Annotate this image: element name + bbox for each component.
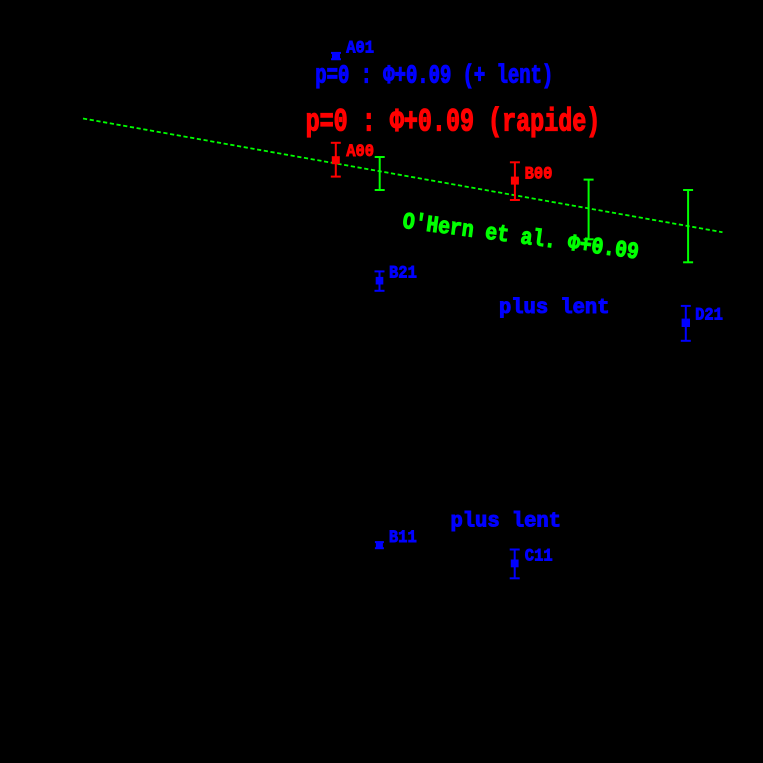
- svg-text:p=0 : Φ+0.09 (+ lent): p=0 : Φ+0.09 (+ lent): [315, 61, 553, 91]
- green error bar 3: [683, 190, 693, 262]
- error bar A01 (blue, tiny): [331, 52, 341, 60]
- svg-text:A00: A00: [346, 141, 374, 161]
- svg-text:p=0 : Φ+0.09 (rapide): p=0 : Φ+0.09 (rapide): [306, 105, 601, 140]
- svg-text:B21: B21: [389, 263, 417, 283]
- error bar A00 (red) with square marker: [331, 143, 341, 177]
- error bar B21 (blue) with square marker: [375, 271, 385, 290]
- error bar D21 (blue) with square marker: [681, 306, 691, 341]
- svg-text:A01: A01: [346, 38, 374, 58]
- error bar B11 (blue, tiny) with square marker: [375, 542, 384, 549]
- error bar C11 (blue) with square marker: [510, 550, 520, 579]
- green error bar 2: [584, 180, 594, 240]
- svg-text:B11: B11: [389, 527, 417, 547]
- svg-text:D21: D21: [695, 304, 723, 324]
- svg-text:plus lent: plus lent: [499, 297, 609, 320]
- svg-text:C11: C11: [525, 546, 553, 566]
- green error bar 1: [375, 157, 385, 190]
- dotted green trend line: [83, 119, 723, 233]
- svg-text:B00: B00: [525, 164, 553, 184]
- svg-text:plus lent: plus lent: [451, 510, 561, 533]
- error bar B00 (red) with square marker: [510, 162, 520, 200]
